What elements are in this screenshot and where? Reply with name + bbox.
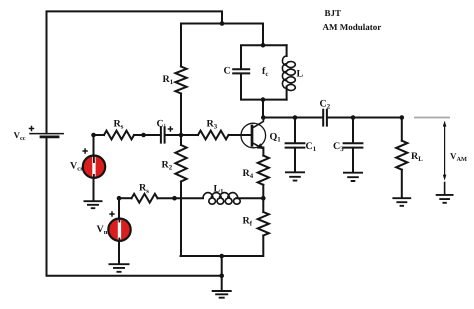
svg-text:fc: fc	[262, 66, 268, 78]
svg-text:R4: R4	[243, 168, 254, 180]
svg-text:C3: C3	[333, 141, 344, 153]
svg-text:AM Modulator: AM Modulator	[323, 22, 382, 32]
svg-text:Rs: Rs	[139, 183, 149, 195]
svg-text:BJT: BJT	[325, 8, 342, 18]
svg-text:R2: R2	[162, 160, 173, 172]
svg-text:R3: R3	[207, 118, 218, 130]
svg-text:C2: C2	[320, 99, 331, 111]
svg-text:C: C	[224, 66, 231, 77]
svg-text:VAM: VAM	[450, 151, 467, 163]
svg-text:L: L	[297, 69, 304, 80]
svg-text:RL: RL	[411, 151, 423, 163]
svg-text:Vcc: Vcc	[14, 130, 26, 142]
svg-text:C1: C1	[306, 141, 317, 153]
svg-text:Ci: Ci	[157, 118, 166, 130]
svg-text:Vm: Vm	[97, 224, 110, 236]
svg-text:Q1: Q1	[270, 132, 282, 144]
svg-text:Rf: Rf	[243, 216, 253, 228]
svg-text:L1: L1	[214, 183, 225, 195]
svg-text:Rs: Rs	[114, 118, 124, 130]
svg-text:Vcr: Vcr	[70, 161, 83, 173]
svg-text:R1: R1	[163, 74, 174, 86]
